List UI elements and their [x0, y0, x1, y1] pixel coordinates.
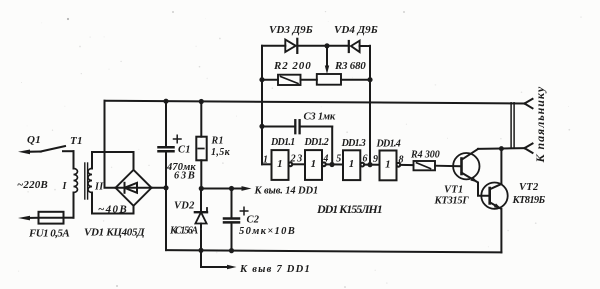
resistor R3 trimmer: [317, 74, 370, 85]
fuse FU1: [18, 212, 74, 224]
svg-text:DD1 К155ЛН1: DD1 К155ЛН1: [316, 202, 383, 216]
svg-text:5: 5: [336, 153, 341, 164]
node collectors: [499, 146, 504, 151]
wire: [364, 164, 379, 166]
arrow to pin 7: [227, 265, 237, 270]
svg-text:КТ315Г: КТ315Г: [434, 196, 470, 207]
svg-text:VT1: VT1: [444, 185, 464, 196]
node R2 left: [259, 77, 264, 82]
svg-text:К выв 7 DD1: К выв 7 DD1: [239, 264, 310, 275]
wire top rail: [105, 101, 525, 104]
double wire to soldering iron: [511, 103, 514, 148]
svg-text:VT2: VT2: [519, 182, 539, 193]
wire: [292, 163, 305, 165]
svg-text:R1: R1: [211, 136, 224, 147]
wire right vertical of RC network: [369, 46, 371, 165]
diode VD4: [327, 41, 370, 52]
node top rail C1: [163, 99, 168, 104]
svg-text:Q1: Q1: [27, 134, 41, 146]
resistor R1: [196, 102, 206, 189]
svg-text:R3 680: R3 680: [334, 60, 366, 72]
wire bridge plus up to top rail: [105, 101, 116, 188]
svg-text:КС156А: КС156А: [169, 226, 199, 237]
svg-text:С1: С1: [178, 145, 191, 156]
node R3 right drop: [367, 162, 372, 167]
svg-text:3: 3: [296, 153, 302, 164]
wire +5V rail: [201, 188, 243, 190]
transformer T1 secondary winding II: [88, 169, 92, 193]
svg-text:6: 6: [363, 154, 368, 165]
logic gate DD1.2: [305, 150, 326, 180]
switch Q1: [18, 146, 74, 154]
node C2 bottom: [229, 248, 234, 253]
wire: [326, 163, 343, 165]
svg-text:К паяльнику: К паяльнику: [533, 86, 547, 163]
wiper arrow from diode junction to R3: [325, 46, 329, 74]
svg-text:DD1.1: DD1.1: [270, 137, 296, 148]
svg-text:1,5к: 1,5к: [211, 147, 231, 158]
svg-text:FU1 0,5А: FU1 0,5А: [28, 228, 70, 240]
capacitor C1: [159, 101, 182, 250]
svg-text:С2: С2: [247, 215, 260, 226]
svg-text:1: 1: [385, 158, 391, 170]
svg-text:~220В: ~220В: [17, 179, 48, 191]
wire primary to fuse: [73, 193, 75, 218]
node: [163, 185, 168, 190]
node VD3/VD4 junction: [324, 43, 329, 48]
svg-text:К выв. 14 DD1: К выв. 14 DD1: [254, 185, 319, 196]
arrow to pin 14: [242, 186, 252, 191]
wire VT1 collector rail: [478, 147, 525, 150]
svg-text:С3 1мк: С3 1мк: [304, 111, 336, 122]
wire top diode row: [262, 45, 285, 47]
svg-text:КТ819Б: КТ819Б: [512, 195, 546, 206]
svg-text:VD1 КЦ405Д: VD1 КЦ405Д: [84, 227, 145, 239]
wire VT2 emitter down: [500, 209, 502, 252]
transformer core: [85, 163, 88, 199]
svg-text:VD2: VD2: [174, 201, 195, 212]
node C3 right drop: [329, 162, 334, 167]
wire VT1 emitter to VT2 base: [478, 183, 490, 196]
svg-text:DD1.3: DD1.3: [341, 138, 367, 149]
resistor R4: [400, 161, 460, 170]
node R3 right: [367, 77, 372, 82]
logic gate DD1.1: [262, 150, 292, 180]
svg-text:DD1.2: DD1.2: [304, 137, 330, 148]
connector fork lower: [525, 144, 533, 153]
zener VD2: [195, 189, 207, 251]
svg-text:1: 1: [263, 155, 268, 166]
svg-text:1: 1: [311, 158, 317, 170]
svg-text:VD4 Д9Б: VD4 Д9Б: [334, 24, 378, 36]
svg-text:1: 1: [277, 158, 283, 170]
bridge rectifier VD1: [116, 170, 152, 206]
node C3 left: [259, 124, 264, 129]
connector fork upper: [525, 99, 533, 108]
svg-text:Т1: Т1: [70, 135, 83, 147]
wire bridge minus to C1 line: [152, 187, 167, 189]
capacitor C2: [224, 189, 248, 251]
svg-text:2: 2: [290, 154, 296, 165]
wire left vertical of RC network: [261, 46, 263, 165]
svg-text:II: II: [94, 182, 104, 193]
wire VT2 collector up: [500, 149, 502, 184]
node +5V rail left: [199, 186, 204, 191]
wire bottom rail: [166, 250, 501, 252]
wire R2 to R3: [301, 79, 317, 81]
wire secondary top to bridge: [92, 152, 134, 169]
svg-text:9: 9: [373, 154, 378, 165]
svg-text:R2 200: R2 200: [273, 60, 311, 72]
capacitor C3: [262, 120, 332, 164]
svg-text:50мк×10В: 50мк×10В: [239, 226, 295, 237]
svg-text:1: 1: [349, 158, 355, 170]
wire secondary bottom to bridge: [92, 193, 134, 214]
resistor R2: [262, 75, 301, 85]
logic gate DD1.3: [343, 150, 364, 180]
svg-text:DD1.4: DD1.4: [376, 138, 402, 149]
logic gate DD1.4: [380, 151, 401, 181]
transformer T1 primary winding I: [74, 169, 78, 193]
node C2 top: [229, 186, 234, 191]
svg-text:R4 300: R4 300: [410, 150, 440, 161]
transistor VT1: [453, 149, 479, 183]
wire to pin 7: [201, 250, 230, 267]
transistor VT2: [481, 183, 507, 210]
svg-text:I: I: [62, 181, 68, 192]
wire switch to primary: [73, 151, 75, 168]
svg-text:8: 8: [399, 155, 404, 166]
node VD2 bottom: [198, 248, 203, 253]
diode VD3: [285, 39, 327, 53]
node top rail R1: [199, 99, 204, 104]
svg-text:4: 4: [322, 154, 328, 165]
svg-text:63В: 63В: [174, 171, 195, 182]
svg-text:VD3 Д9Б: VD3 Д9Б: [269, 24, 313, 36]
